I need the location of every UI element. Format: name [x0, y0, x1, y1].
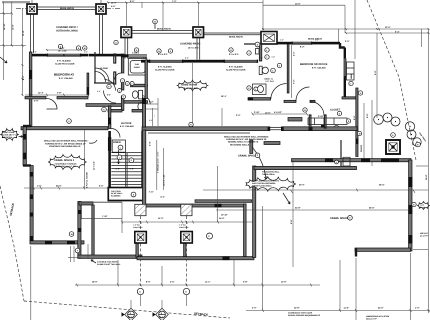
closet east wall upper [114, 54, 116, 63]
left wall window black segment [29, 70, 32, 79]
svg-text:5'-2": 5'-2" [149, 101, 153, 104]
hall stub wall [288, 118, 302, 122]
post A1 column below [31, 14, 34, 53]
bedroom office west wall [287, 44, 289, 93]
bath lower wall [124, 101, 148, 104]
footing channel 1 [136, 244, 138, 259]
keynote circles gameroom wall [157, 49, 161, 53]
svg-text:5'-0": 5'-0" [130, 167, 134, 170]
svg-text:3'-0": 3'-0" [345, 40, 349, 43]
svg-text:FURRING WITH 1" AIR SPACE INSI: FURRING WITH 1" AIR SPACE INSIDE OF [226, 138, 267, 141]
svg-text:9 FT. SLIDING: 9 FT. SLIDING [158, 66, 172, 69]
svg-text:BEAM: BEAM [420, 206, 426, 209]
stair dim verticals [156, 140, 158, 190]
svg-text:WINE: WINE [350, 73, 353, 79]
svg-text:ALUM PATIO DOOR: ALUM PATIO DOOR [55, 62, 75, 65]
svg-text:8: 8 [272, 69, 273, 72]
post A2 top-right of patio [96, 4, 106, 14]
svg-text:9 FT. CEILING: 9 FT. CEILING [184, 87, 198, 90]
alcove wall upper east [145, 60, 147, 99]
keynote circle shelf [346, 119, 350, 123]
svg-text:A3.1: A3.1 [159, 316, 163, 319]
svg-text:5'-0": 5'-0" [116, 167, 120, 170]
svg-text:BEAM ABOVE: BEAM ABOVE [60, 7, 75, 10]
hall door arc bedroom [296, 87, 310, 101]
stair center rail [126, 153, 127, 187]
crawl1 notch wall horizontal [79, 202, 93, 205]
svg-text:GAME ROOM: GAME ROOM [181, 84, 197, 87]
bath2 vanity [253, 84, 267, 95]
svg-text:6: 6 [266, 49, 267, 52]
bath keynote row [121, 79, 125, 83]
keynote circle far right [416, 142, 421, 147]
left leader arrow [0, 57, 7, 63]
closet door arc [310, 102, 324, 116]
stair direction arrow [118, 150, 120, 164]
alcove wall east [142, 98, 145, 127]
toilet 1 bowl [132, 91, 138, 98]
pier centerlines dashed [140, 216, 142, 231]
svg-text:3: 3 [131, 82, 132, 85]
svg-text:THESE FLOOR AREAS: THESE FLOOR AREAS [252, 185, 272, 188]
bedroom bottom wall left [25, 97, 46, 99]
linen door arc [111, 129, 120, 138]
svg-text:8'-2": 8'-2" [22, 76, 25, 80]
big room dim line [203, 189, 428, 191]
svg-text:12'-0": 12'-0" [111, 2, 117, 5]
bath top wall black seg [121, 54, 129, 57]
svg-text:CONC PIER: CONC PIER [133, 226, 143, 229]
bedroom wing top wall window [47, 54, 81, 56]
east wall window segs [408, 177, 412, 187]
svg-text:11'-1 1/2": 11'-1 1/2" [93, 161, 96, 170]
svg-text:13'-2": 13'-2" [160, 196, 165, 199]
wine fridge cabinet [347, 62, 355, 80]
big room south wall east seg [355, 248, 411, 251]
bedroom east wall [87, 73, 89, 95]
hatched pier 1 [135, 204, 146, 215]
svg-text:3: 3 [255, 88, 256, 91]
svg-text:RETAINING WALLS: RETAINING WALLS [230, 143, 250, 146]
svg-text:4: 4 [119, 89, 120, 92]
svg-text:THIS AREA @ 4'-0" DN: THIS AREA @ 4'-0" DN [56, 165, 77, 168]
bottom right dim extensions [355, 258, 357, 320]
pocket door jamb [325, 115, 327, 128]
big room vertical dim [262, 206, 264, 285]
svg-text:2'-10": 2'-10" [254, 111, 260, 114]
svg-text:2'-10": 2'-10" [318, 115, 324, 118]
svg-text:12'-6": 12'-6" [11, 24, 14, 30]
svg-text:11'-0": 11'-0" [158, 217, 164, 220]
svg-text:INSULATED 2x6 INTERIOR WALL FR: INSULATED 2x6 INTERIOR WALL FRAMING / [44, 140, 89, 143]
crawl2 west wall [142, 130, 145, 205]
right pier keynote [391, 133, 396, 138]
svg-text:2'-6": 2'-6" [280, 38, 284, 41]
alcove west wall upper [108, 106, 111, 118]
hall dim line [252, 113, 307, 115]
keynote circles A B patio [76, 46, 80, 50]
west wall window seg 2 [23, 153, 26, 160]
cap stair block [108, 188, 144, 201]
closet keynote under label [337, 111, 341, 115]
right margin keynote [412, 202, 416, 206]
bedroom/office east wall upper [344, 48, 346, 59]
svg-text:3'-4": 3'-4" [395, 30, 399, 33]
alcove dim marks [146, 103, 158, 105]
svg-text:9'-8": 9'-8" [290, 220, 293, 224]
game room top wall black seg mid [183, 60, 224, 63]
bedroom/office top wall black seg 1 [277, 42, 292, 45]
svg-text:26'-8": 26'-8" [425, 174, 428, 180]
tick slashes y95 [46, 94, 65, 97]
bedroom/office top wall black seg 2 [312, 42, 340, 45]
inner face line game room wall [148, 132, 250, 134]
svg-text:+: + [154, 116, 155, 118]
svg-text:A3.1: A3.1 [128, 316, 132, 319]
svg-text:3'-10": 3'-10" [149, 191, 154, 194]
svg-text:11'-1": 11'-1" [205, 281, 211, 284]
svg-text:18'-1": 18'-1" [221, 95, 227, 98]
closet wall vertical [94, 52, 96, 83]
svg-text:SEISMIC AREA AT CONCRETE: SEISMIC AREA AT CONCRETE [228, 141, 259, 144]
svg-text:GREAT ROOM: GREAT ROOM [2, 131, 15, 134]
svg-text:6'-0x8'-8: 6'-0x8'-8 [132, 52, 139, 55]
svg-text:12'-4": 12'-4" [38, 92, 44, 95]
svg-text:BEAM ABOVE: BEAM ABOVE [157, 28, 172, 31]
svg-text:TUB/: TUB/ [135, 63, 140, 66]
bath keynote circles top [114, 40, 118, 44]
left dimension column lines [0, 2, 30, 95]
pier X 1 [135, 232, 147, 244]
center bottom wall [137, 257, 254, 260]
svg-text:5: 5 [123, 96, 124, 99]
closet rod arcs [95, 68, 109, 82]
bedroom/office east wall lower [344, 76, 346, 98]
crawl1 west window segs [30, 172, 34, 177]
hall wall below bedroom [57, 97, 88, 99]
svg-text:ALUM PATIO DOOR: ALUM PATIO DOOR [155, 68, 175, 71]
svg-text:15'-0": 15'-0" [219, 217, 225, 220]
svg-text:2'-0": 2'-0" [33, 51, 37, 54]
bottom-left dim extensions [30, 246, 32, 320]
pier X right [386, 140, 400, 154]
stair treads (single wide run) [111, 153, 141, 185]
big room east wall [409, 160, 412, 251]
dim vertical x217 [217, 166, 219, 222]
svg-text:4'-0": 4'-0" [252, 306, 256, 309]
bath west door arc [115, 73, 122, 80]
bottom right dim line [246, 310, 430, 312]
top dim extension verticals [125, 3, 127, 27]
svg-text:26'-6": 26'-6" [369, 206, 375, 209]
keynote circles right wing [349, 81, 353, 85]
svg-text:CLOSET: CLOSET [100, 67, 109, 70]
big room south step [355, 248, 357, 257]
svg-text:CRAWL SPACE: CRAWL SPACE [330, 217, 349, 220]
svg-text:ALUM PATIO DOOR: ALUM PATIO DOOR [226, 68, 246, 71]
bath top window [129, 55, 148, 58]
keynote circle E patio [58, 44, 62, 48]
svg-text:24'-8": 24'-8" [295, 206, 301, 209]
crawl1 dim line [24, 187, 110, 189]
svg-text:FURRING WITH 1" AIR SPACE INSI: FURRING WITH 1" AIR SPACE INSIDE OF [45, 142, 86, 145]
GAME ROOM cloud [177, 80, 209, 91]
post A1 top-left patio [27, 4, 37, 14]
bedroom/office wall corner step [340, 43, 345, 48]
bottom dim verticals [117, 260, 119, 285]
game room window west [150, 60, 184, 62]
svg-text:INSULATED 2x6 INTERIOR WALL (F: INSULATED 2x6 INTERIOR WALL (FRAMING) [224, 136, 269, 139]
svg-text:5'-6": 5'-6" [353, 116, 356, 120]
main horizontal wall center part [142, 127, 357, 131]
pier keynote [207, 233, 213, 239]
keynote circle hall [102, 107, 107, 112]
right edge dimension vertical [428, 29, 430, 313]
tree 1 [374, 115, 384, 125]
main horizontal wall west part [21, 127, 108, 130]
right dim verticals [363, 103, 365, 158]
center section south wall [146, 204, 246, 207]
tick slashes left col [3, 13, 24, 97]
svg-text:4'-6 1/2": 4'-6 1/2" [274, 111, 282, 114]
svg-text:BEAM ABOVE: BEAM ABOVE [229, 36, 244, 39]
svg-text:4'-6": 4'-6" [170, 281, 174, 284]
wh keynote [335, 160, 339, 164]
post B2 column below [197, 38, 200, 60]
crawl1 bottom wall [30, 241, 84, 244]
closet door arc [105, 80, 116, 91]
water heater box [343, 157, 350, 166]
svg-text:24'-6": 24'-6" [56, 185, 62, 188]
crawl1 west wall [30, 166, 33, 243]
crawl2 note leader [252, 147, 266, 179]
svg-text:9'-8": 9'-8" [366, 114, 369, 118]
crawl1 bottom window segs [45, 241, 52, 245]
wc door arc [142, 96, 150, 105]
svg-text:9 FT CLG: 9 FT CLG [266, 80, 275, 83]
svg-text:ROUGH OPENING REQUIREMENTS: ROUGH OPENING REQUIREMENTS [288, 314, 321, 317]
stair side walls [110, 131, 143, 201]
closet wall bottom [94, 82, 115, 84]
svg-text:FLOOR ABV 7'-10": FLOOR ABV 7'-10" [2, 134, 18, 137]
svg-text:BEDROOM #3: BEDROOM #3 [54, 73, 74, 77]
wall fireplace to game room corner [259, 44, 262, 61]
beam above (second patio) [132, 30, 194, 32]
svg-text:1'-6": 1'-6" [143, 56, 147, 59]
svg-text:4 PLY 11 7/8 BM: 4 PLY 11 7/8 BM [86, 172, 89, 188]
svg-text:24'-10": 24'-10" [3, 23, 6, 30]
svg-text:1: 1 [122, 80, 123, 83]
svg-text:4x10 FLOOR BEAMS W/ POSTS: 4x10 FLOOR BEAMS W/ POSTS [252, 180, 280, 183]
beam centerline dash-dot [16, 7, 27, 9]
bedroom bottom wall [342, 97, 358, 99]
center east wall [244, 204, 247, 257]
left margin cloud note [0, 129, 18, 140]
svg-text:8'-0 x 8'-0: 8'-0 x 8'-0 [158, 53, 168, 56]
hall south stub wall horizontal [264, 142, 280, 145]
closet2 shelf rect [308, 118, 347, 125]
left cloud arrow [19, 136, 24, 138]
cap stair keynote [131, 192, 136, 197]
svg-text:5'-8": 5'-8" [57, 92, 61, 95]
window jamb ticks game room [149, 60, 150, 63]
hall door arc [104, 91, 117, 104]
revision cloud big room [246, 177, 296, 191]
bedroom wing top wall black segment left [29, 54, 47, 57]
svg-text:6'-6": 6'-6" [99, 185, 103, 188]
bath2 wall fixture [256, 49, 260, 55]
cloud arrow [283, 193, 290, 204]
linen closet box [112, 140, 125, 152]
svg-text:14'-6": 14'-6" [295, 3, 301, 6]
leader bracket [89, 140, 97, 143]
closet2 keynote [303, 108, 307, 112]
right margin cloud [417, 201, 430, 209]
svg-text:1'-6": 1'-6" [37, 185, 41, 188]
bedroom wing top wall black segment right [81, 54, 89, 57]
svg-text:9'-2": 9'-2" [300, 46, 304, 49]
hall wall below bedroom [284, 100, 296, 102]
svg-text:THESE AREAS: THESE AREAS [262, 173, 276, 176]
svg-text:5'-0": 5'-0" [315, 38, 319, 41]
bath west wall lower [121, 96, 124, 111]
tick slashes y222 [146, 221, 219, 224]
svg-text:BEDROOM OR OFFICE: BEDROOM OR OFFICE [300, 63, 328, 66]
center section interior line [81, 202, 122, 219]
svg-text:1'-3": 1'-3" [415, 306, 419, 309]
game room top wall black seg left [141, 60, 150, 63]
bottom wall black seg [223, 256, 230, 260]
game room dim extensions [151, 108, 153, 126]
beam continues right [204, 32, 262, 34]
crawl1 inner vertical dim [84, 130, 86, 188]
bedroom wing left wall [29, 52, 32, 127]
passage east wall [92, 205, 94, 256]
east dim extension [416, 165, 428, 167]
svg-text:6'-0": 6'-0" [60, 47, 64, 50]
svg-text:10'-10": 10'-10" [221, 214, 228, 217]
big room north wall [292, 159, 412, 162]
top dimension line over patio [108, 2, 263, 4]
game room dim vertical [192, 63, 194, 130]
svg-text:24'-6": 24'-6" [378, 306, 384, 309]
svg-text:13'-8": 13'-8" [294, 306, 300, 309]
svg-text:11'-4": 11'-4" [22, 30, 25, 36]
alcove top wall west seg [108, 109, 122, 112]
svg-text:3'-4": 3'-4" [149, 142, 152, 146]
crawl1 east wall vertical [78, 202, 81, 259]
svg-text:9 FT. CEILING: 9 FT. CEILING [59, 77, 73, 80]
post B1 column below [125, 38, 128, 59]
tick slashes top dim [107, 2, 199, 4]
svg-text:5'-8": 5'-8" [243, 281, 247, 284]
svg-text:ALCOVE: ALCOVE [121, 122, 132, 125]
svg-text:3'-2": 3'-2" [293, 52, 296, 56]
svg-text:5'-0": 5'-0" [34, 100, 38, 103]
bedroom east wall black seg [87, 87, 89, 95]
svg-text:9 FT. SLIDING: 9 FT. SLIDING [229, 66, 243, 69]
bath2 keynote circles [255, 42, 260, 47]
svg-text:3'-6": 3'-6" [84, 51, 88, 54]
section marker 1 [122, 300, 138, 320]
crawl1 extension bottom wall [78, 255, 142, 258]
great room west wall [23, 127, 26, 166]
sink oval wc [138, 103, 144, 111]
svg-text:COVERED PATIO: COVERED PATIO [180, 43, 200, 46]
svg-text:SEE SHT: SEE SHT [420, 232, 429, 235]
svg-text:5'-6": 5'-6" [107, 94, 111, 97]
svg-text:AND FOOTINGS BETWEEN: AND FOOTINGS BETWEEN [252, 182, 276, 185]
closet east wall lower [114, 72, 116, 84]
svg-text:LINEN: LINEN [113, 141, 121, 144]
window jamb ticks bedroom [47, 54, 48, 57]
svg-text:9'-0": 9'-0" [130, 0, 134, 3]
window jamb ticks bedroom2 [292, 42, 293, 45]
alcove west wall black seg [108, 118, 111, 124]
keynote circle crawl1 [67, 119, 72, 124]
svg-text:PLUMB COURT THIS WALL: PLUMB COURT THIS WALL [97, 263, 121, 266]
crawl space 1 cloud [48, 155, 86, 170]
left col ticks [21, 64, 23, 80]
svg-text:14'-6": 14'-6" [265, 112, 271, 115]
svg-text:2'-0": 2'-0" [236, 114, 240, 117]
alcove west wall mid [108, 124, 111, 129]
closet west wall jamb [309, 115, 311, 128]
wall segment to bath block [89, 54, 122, 57]
svg-text:W: W [71, 233, 73, 236]
svg-text:3'-0": 3'-0" [97, 90, 101, 93]
svg-text:14'-0": 14'-0" [281, 281, 287, 284]
post B1 second patio [121, 27, 132, 38]
beam above (top patio) [37, 6, 96, 8]
svg-text:9 FT. CEILING: 9 FT. CEILING [312, 67, 326, 70]
svg-text:11'-2": 11'-2" [344, 306, 350, 309]
svg-text:8'-0": 8'-0" [185, 56, 189, 59]
post B2 second patio [193, 27, 204, 38]
keynote on main wall [189, 122, 193, 126]
toilet 1 tank [139, 90, 143, 99]
svg-text:SHWR: SHWR [134, 66, 140, 69]
svg-text:20'-0": 20'-0" [299, 184, 305, 187]
svg-text:OUTDOOR LIVING: OUTDOOR LIVING [56, 30, 78, 33]
svg-text:CRAWL SPACE: CRAWL SPACE [238, 155, 257, 158]
svg-text:7'-2": 7'-2" [172, 0, 176, 3]
main wall door sill mark [309, 127, 313, 131]
svg-text:12'-0": 12'-0" [385, 26, 391, 29]
svg-text:PLUMBING: PLUMBING [111, 195, 121, 198]
bath2 toilet bowl [262, 67, 268, 74]
closet2 east wall [356, 88, 358, 157]
dim line x377 [376, 33, 378, 118]
svg-text:8'-0 x 8'-0: 8'-0 x 8'-0 [229, 53, 239, 56]
keynote circle B with leader [153, 19, 158, 24]
svg-text:9'-0": 9'-0" [374, 71, 377, 75]
tree 6 [413, 138, 421, 146]
bedroom door arc [47, 99, 58, 110]
hall south stub wall vertical [250, 140, 253, 154]
main wall door opening [270, 126, 281, 131]
tub [128, 59, 147, 76]
bottom main dim line [75, 284, 320, 286]
keynote circles above markers [137, 288, 143, 294]
property dashed diagonal (lower-left) [0, 186, 24, 301]
hatched pier 2 [181, 204, 192, 215]
bedroom/office east window [344, 59, 346, 77]
crawl1 inner dim line [81, 217, 122, 219]
svg-text:A3.2 TYP: A3.2 TYP [420, 235, 429, 238]
top-right dimension lines [263, 4, 345, 6]
svg-text:4'-0": 4'-0" [111, 103, 115, 106]
